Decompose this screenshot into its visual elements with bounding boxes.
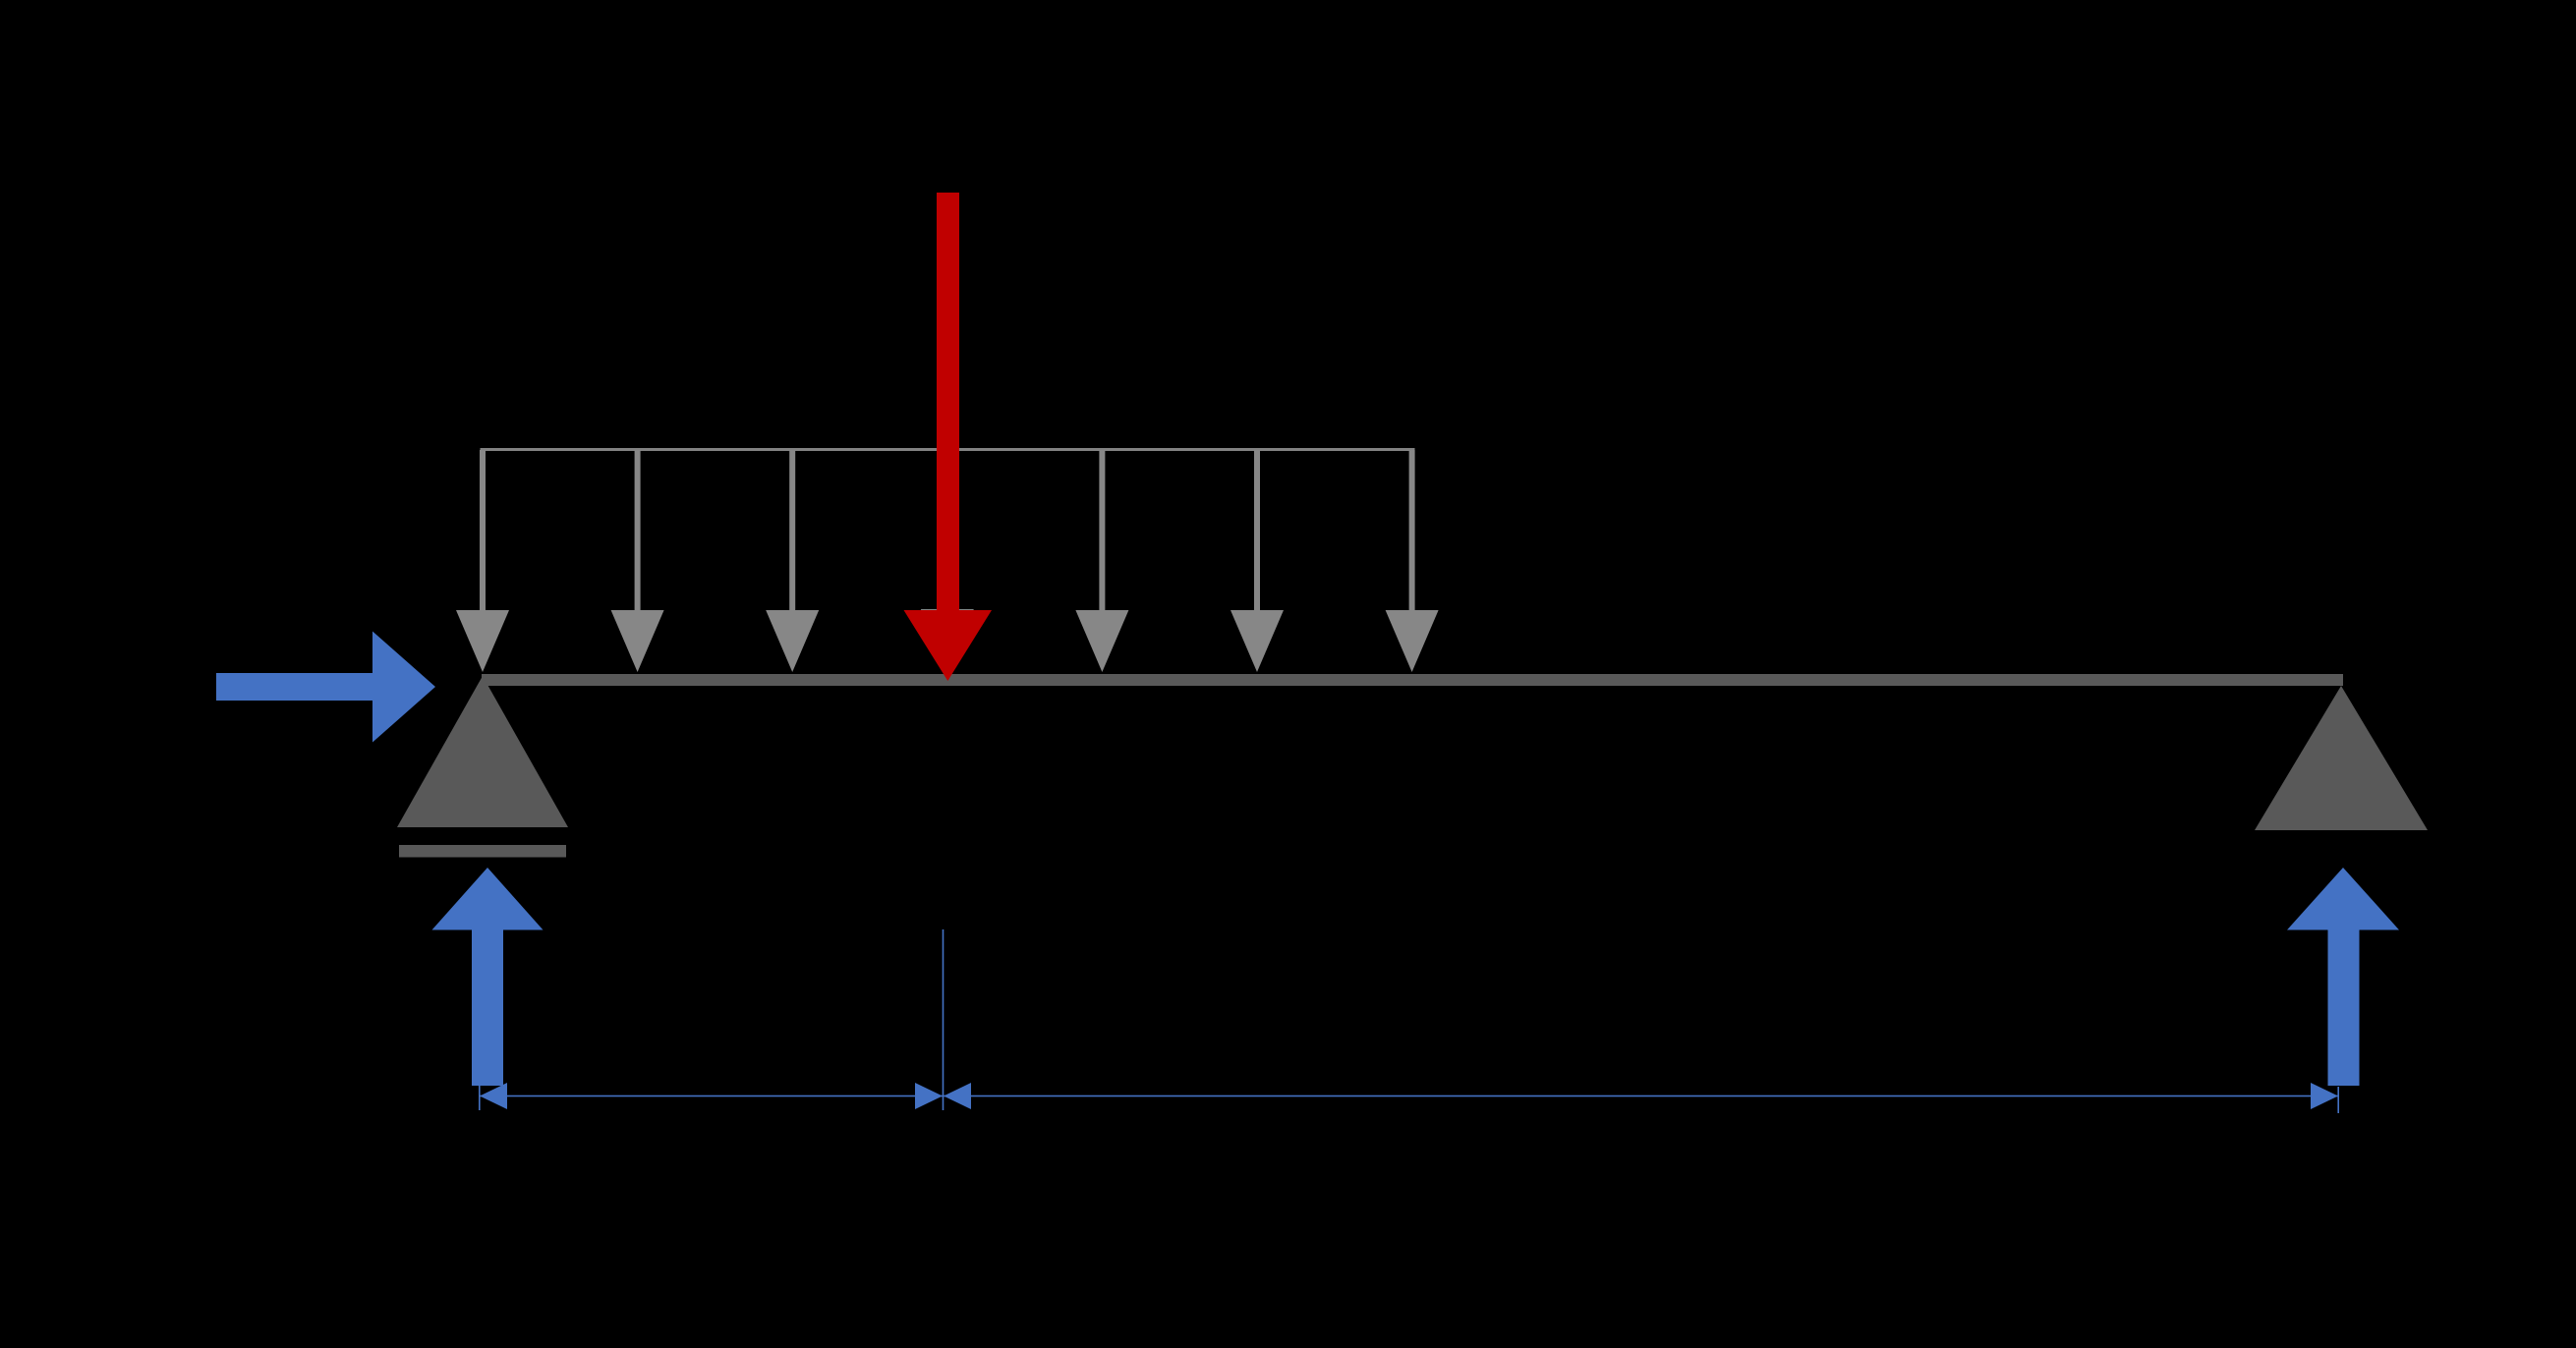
distributed load arrow w2 [611,450,664,672]
pin support A (left triangle) [397,676,568,827]
roller support B (right triangle) [2255,686,2428,830]
distributed load arrow w1 [456,450,509,672]
dimension arrowhead left end (points left) [480,1083,507,1109]
distributed load arrow w6 [1231,450,1284,672]
vertical reaction Ay (left blue up arrow) [432,868,544,1086]
horizontal reaction Ax (blue right arrow) [216,632,435,743]
distributed load arrow w5 [1075,450,1128,672]
distributed load header line [481,448,1415,451]
beam [482,674,2343,686]
dimension extension line at load point [943,929,945,1110]
dimension extension tick at B [2337,1087,2339,1113]
dimension line [480,1095,2338,1097]
vertical reaction By (right blue up arrow) [2287,868,2399,1086]
distributed load arrow w4 (behind point load) [921,450,974,672]
dimension arrowhead mid-right (points left) [944,1083,971,1109]
distributed load arrow w7 [1386,450,1439,672]
point load P (red arrow) [904,193,993,681]
dimension arrowhead right end (points right) [2311,1083,2338,1109]
dimension extension tick at A [479,1084,481,1110]
distributed load arrow w3 [766,450,819,672]
dimension arrowhead mid-left (points right) [915,1083,943,1109]
ground bar under support A [399,845,566,858]
